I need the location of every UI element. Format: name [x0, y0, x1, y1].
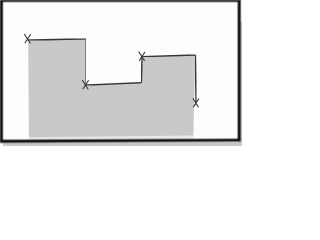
outline segment: right edge of right block — [194, 55, 197, 105]
dim gap band under region — [29, 136, 194, 139]
outline segment: top edge of left block — [28, 39, 86, 40]
outline segment: top edge of right block — [142, 55, 195, 57]
vertex marker X3 — [139, 52, 145, 61]
outline segment: valley bottom edge — [86, 83, 142, 85]
vertex marker X4 — [193, 99, 199, 107]
shaded region fill (skyline polygon) — [28, 39, 195, 137]
gray page background strip below frame — [3, 142, 242, 146]
outline segment: right edge of left block — [85, 39, 87, 85]
vertex marker X2 — [82, 80, 88, 89]
white canvas background — [0, 0, 242, 146]
outline segment: left edge of right block — [140, 57, 143, 83]
vertex marker X1 — [25, 34, 31, 43]
black border frame — [0, 0, 241, 143]
gray page background column right of frame — [241, 22, 242, 146]
